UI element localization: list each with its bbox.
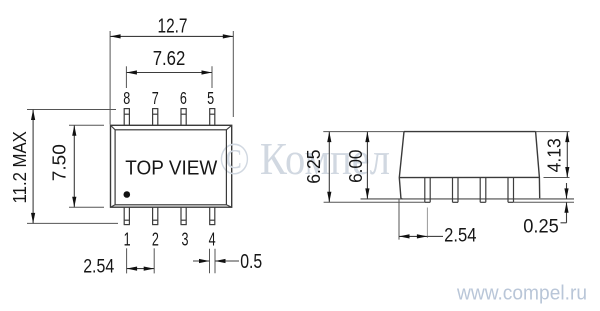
svg-text:www.compel.ru: www.compel.ru: [456, 283, 587, 305]
svg-text:4.13: 4.13: [544, 138, 565, 172]
svg-text:7.50: 7.50: [49, 144, 70, 181]
svg-text:2.54: 2.54: [444, 226, 477, 247]
svg-text:6.25: 6.25: [303, 150, 324, 184]
svg-text:11.2 MAX: 11.2 MAX: [10, 131, 30, 203]
svg-text:1: 1: [124, 229, 131, 250]
svg-text:2.54: 2.54: [83, 256, 114, 278]
svg-text:7.62: 7.62: [153, 47, 186, 70]
svg-text:7: 7: [152, 88, 159, 108]
svg-text:6.00: 6.00: [345, 150, 366, 183]
svg-text:12.7: 12.7: [158, 14, 188, 37]
svg-text:0.25: 0.25: [523, 215, 559, 237]
svg-text:4: 4: [209, 229, 216, 250]
svg-text:6: 6: [180, 88, 187, 108]
svg-text:0.5: 0.5: [240, 251, 262, 273]
svg-text:3: 3: [182, 229, 189, 250]
svg-text:TOP VIEW: TOP VIEW: [125, 156, 218, 179]
svg-text:5: 5: [207, 88, 214, 108]
svg-text:2: 2: [152, 229, 159, 250]
svg-text:8: 8: [123, 88, 130, 108]
